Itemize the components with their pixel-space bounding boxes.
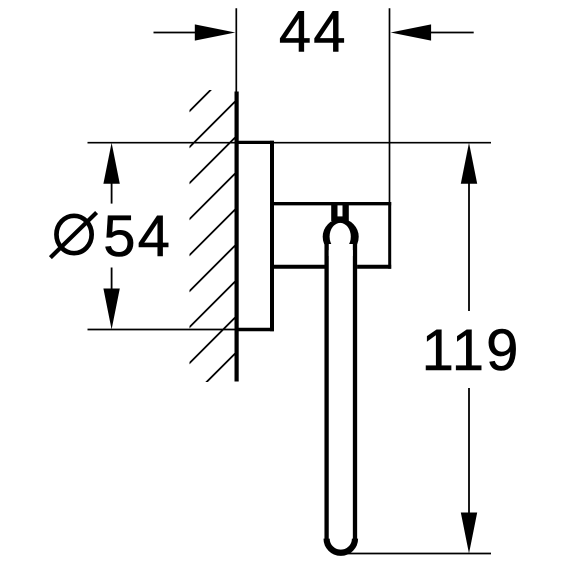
svg-text:44: 44 [279, 0, 348, 65]
svg-text:54: 54 [103, 204, 172, 269]
svg-text:119: 119 [422, 318, 521, 383]
